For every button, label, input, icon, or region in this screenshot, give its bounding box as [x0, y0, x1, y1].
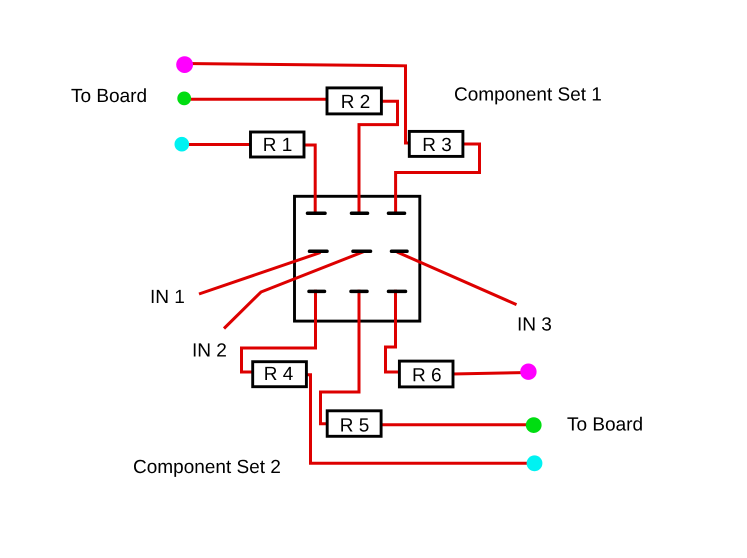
label: IN 3 [519, 317, 551, 331]
wire: IN 2 lead to middle pin 5 [224, 252, 364, 329]
pin 4 [310, 250, 328, 254]
pin 9 [389, 290, 406, 294]
pin 6 [392, 250, 408, 254]
node: cyan terminal bottom [527, 455, 543, 471]
wire: green terminal to R2 left [184, 98, 329, 101]
node: green terminal top [177, 92, 191, 106]
resistor R6 [399, 361, 453, 387]
wire: magenta terminal to R3 left [185, 64, 411, 144]
node: magenta terminal bottom [520, 364, 536, 380]
switch body U1 [295, 196, 420, 321]
wire: IN 1 lead to middle pin 4 [199, 253, 321, 295]
label: IN 2 [194, 343, 226, 356]
pin 8 [351, 290, 367, 294]
node: green terminal bottom [526, 417, 542, 433]
resistor R2 [327, 88, 381, 114]
pin 2 [352, 211, 368, 215]
pin 7 [309, 290, 325, 294]
wire: R3 right to switch pin 3 [396, 144, 480, 215]
resistor R3 [409, 131, 463, 156]
wire: switch pin 7 to R4 left [242, 290, 316, 373]
label: Component Set 1 [455, 87, 601, 104]
label: IN 1 [152, 290, 184, 303]
wire: switch pin 9 to R6 left [386, 290, 402, 373]
pin 1 [308, 211, 326, 215]
pin 5 [353, 250, 371, 254]
wire: IN 3 lead from middle pin 6 [397, 252, 517, 305]
label: To Board (top) [71, 88, 145, 102]
node: magenta terminal top [176, 56, 193, 73]
wire: cyan terminal to R1 left [182, 143, 252, 146]
resistor R4 [253, 362, 307, 387]
pin 3 [389, 211, 405, 215]
wire: switch pin 8 to R5 left [321, 290, 360, 424]
label: Component Set 2 [134, 460, 280, 477]
wire: R4 right to cyan terminal [305, 375, 534, 464]
resistor R5 [327, 411, 381, 437]
node: cyan terminal top [175, 137, 190, 152]
label: To Board (bottom) [567, 417, 641, 431]
wire: R1 right to switch pin 1 [302, 145, 315, 215]
resistor R1 [251, 132, 305, 157]
wire: R5 right to green terminal [380, 423, 534, 426]
wire: R2 right to switch pin 2 [359, 101, 398, 214]
wire: R6 right to magenta terminal [452, 373, 528, 375]
